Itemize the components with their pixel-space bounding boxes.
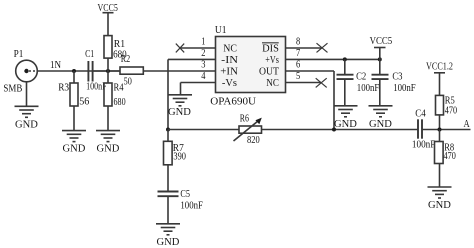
resistor R6 (variable): [234, 113, 262, 146]
svg-text:390: 390: [173, 152, 186, 163]
svg-text:470: 470: [445, 105, 457, 116]
pin 2 stub: [168, 58, 216, 60]
svg-text:R6: R6: [240, 113, 249, 124]
svg-text:C4: C4: [415, 109, 426, 120]
svg-text:7: 7: [296, 48, 300, 59]
svg-text:A: A: [464, 119, 471, 130]
wire -Vs down: [180, 83, 182, 95]
pin 5 stub: [286, 82, 322, 84]
capacitor C5: [158, 189, 204, 224]
node junction OUT/feedback: [332, 128, 336, 132]
ground under C3: [369, 106, 393, 130]
wire 1N input: [37, 70, 120, 72]
svg-text:1: 1: [201, 37, 205, 48]
svg-text:-Vs: -Vs: [222, 77, 237, 89]
svg-text:-IN: -IN: [221, 54, 238, 66]
ground under R4: [96, 131, 120, 155]
svg-text:GND: GND: [369, 118, 392, 130]
svg-text:100nF: 100nF: [180, 201, 203, 212]
capacitor C3: [372, 59, 416, 105]
resistor R1: [104, 36, 127, 71]
node junction R5/R8: [438, 128, 442, 132]
pin 1 stub: [180, 47, 216, 49]
wire OUT down: [333, 71, 335, 130]
node junction at R1/R4 tap: [106, 69, 110, 73]
svg-text:100nF: 100nF: [412, 139, 436, 150]
resistor R2: [120, 54, 143, 88]
resistor R4: [104, 71, 126, 131]
power VCC1.2: [426, 61, 453, 95]
svg-text:820: 820: [247, 135, 260, 146]
capacitor C2: [337, 59, 380, 105]
svg-text:VCC1.2: VCC1.2: [426, 61, 453, 72]
wire R6 to OUT node: [262, 129, 419, 131]
resistor R7: [164, 130, 187, 192]
pin 4 stub: [181, 82, 216, 84]
svg-text:6: 6: [296, 60, 300, 71]
ground under C2: [334, 106, 358, 130]
ground under P1: [15, 106, 39, 130]
svg-text:2: 2: [201, 48, 205, 59]
svg-text:NC: NC: [266, 77, 279, 89]
svg-text:SMB: SMB: [3, 84, 22, 95]
ground at -Vs: [168, 95, 192, 118]
svg-text:5: 5: [296, 71, 300, 82]
svg-text:8: 8: [296, 37, 300, 48]
pin 7 stub / +Vs rail: [286, 58, 380, 60]
wire P1 bottom lead: [26, 82, 28, 107]
svg-text:GND: GND: [63, 143, 86, 155]
ground under R8: [428, 187, 452, 211]
svg-text:GND: GND: [428, 199, 451, 211]
capacitor C1: [85, 49, 120, 93]
power VCC5 left: [98, 3, 118, 36]
svg-text:GND: GND: [97, 143, 120, 155]
capacitor C4: [412, 109, 471, 151]
svg-text:3: 3: [201, 60, 205, 71]
svg-text:DIS: DIS: [262, 43, 279, 55]
svg-text:GND: GND: [334, 118, 357, 130]
svg-text:OUT: OUT: [259, 66, 279, 78]
svg-text:50: 50: [124, 76, 132, 87]
pin 8 stub: [286, 47, 323, 49]
svg-text:C3: C3: [392, 72, 402, 83]
svg-text:GND: GND: [15, 118, 38, 130]
svg-text:U1: U1: [215, 24, 227, 36]
pin 6 stub OUT: [286, 70, 335, 72]
op-amp U1: [210, 24, 285, 107]
node junction C2 on rail: [343, 57, 347, 61]
no-connect X pin 1: [176, 44, 184, 53]
ground under R3: [62, 131, 86, 155]
resistor R5: [436, 95, 458, 129]
svg-text:R3: R3: [58, 82, 69, 94]
resistor R3: [58, 71, 90, 131]
no-connect X pin 8: [317, 43, 328, 52]
ground under C5: [156, 224, 180, 248]
resistor R8: [435, 130, 456, 188]
svg-text:VCC5: VCC5: [370, 36, 393, 47]
svg-text:56: 56: [79, 95, 90, 107]
node junction at R3 tap: [72, 69, 76, 73]
svg-text:GND: GND: [157, 236, 180, 248]
no-connect X pin 5: [316, 78, 327, 87]
wire R2 to +IN: [143, 70, 215, 72]
svg-text:C1: C1: [85, 49, 94, 60]
svg-text:680: 680: [114, 96, 126, 108]
svg-text:1N: 1N: [50, 60, 61, 71]
svg-text:100nF: 100nF: [393, 83, 416, 94]
svg-text:R4: R4: [114, 82, 124, 94]
svg-text:100nF: 100nF: [357, 83, 380, 94]
node junction feedback at -IN: [166, 128, 170, 132]
svg-text:OPA690U: OPA690U: [210, 96, 256, 107]
svg-text:4: 4: [201, 71, 205, 82]
power VCC5 right: [370, 36, 393, 60]
svg-text:C5: C5: [180, 189, 190, 200]
wire feedback row: [168, 129, 239, 131]
svg-text:P1: P1: [14, 48, 24, 60]
svg-text:C2: C2: [356, 72, 366, 83]
svg-text:470: 470: [444, 151, 456, 162]
connector P1: [16, 60, 38, 82]
svg-text:NC: NC: [223, 43, 237, 55]
svg-text:GND: GND: [168, 106, 191, 118]
node junction VCC5/C3 on rail: [378, 57, 382, 61]
svg-text:+Vs: +Vs: [265, 54, 279, 66]
svg-text:R2: R2: [121, 54, 131, 65]
wire -IN feedback vertical: [167, 59, 169, 129]
svg-text:+IN: +IN: [220, 66, 238, 78]
